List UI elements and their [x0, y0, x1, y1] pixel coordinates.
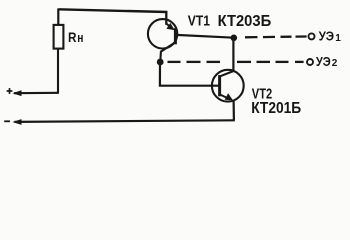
- svg-text:КТ203Б: КТ203Б: [218, 13, 272, 30]
- svg-text:VT1: VT1: [188, 12, 210, 29]
- svg-text:2: 2: [332, 58, 338, 69]
- wire Rн top lead: [57, 9, 59, 26]
- transistor VT1 circle: [148, 19, 177, 48]
- transistor VT2 base bar: [218, 75, 221, 96]
- wire VT2 emitter drop: [233, 101, 235, 121]
- dashed wire to УЭ2: [168, 61, 304, 63]
- dashed wire to УЭ1: [245, 35, 307, 38]
- wire node A down and right to VT2 base: [160, 62, 219, 86]
- wire top horizontal (Rн top to VT1 emitter corner): [58, 9, 167, 12]
- transistor VT2 collector line: [220, 71, 233, 76]
- transistor VT1 collector line: [160, 43, 174, 62]
- label + sign: [7, 88, 13, 94]
- label - sign: [4, 120, 10, 122]
- svg-text:УЭ: УЭ: [319, 29, 334, 43]
- svg-text:1: 1: [335, 33, 341, 44]
- svg-text:КТ201Б: КТ201Б: [251, 100, 301, 117]
- resistor Rн: [54, 25, 64, 49]
- terminal УЭ1 circle: [309, 33, 315, 39]
- wire bottom horizontal to minus terminal: [15, 120, 235, 122]
- svg-text:н: н: [77, 30, 83, 45]
- wire VT1 emitter drop: [165, 11, 167, 25]
- junction dot node B (VT1 base / VT2 collector): [231, 35, 238, 42]
- terminal - arrow: [13, 119, 22, 125]
- terminal + arrow: [13, 90, 22, 96]
- wire VT2 collector vertical: [232, 38, 234, 71]
- wire plus-terminal horizontal: [14, 92, 59, 95]
- transistor VT2 circle: [212, 70, 244, 102]
- svg-text:УЭ: УЭ: [316, 55, 331, 69]
- transistor VT2 emitter arrow (NPN, points outward): [220, 93, 233, 100]
- svg-text:R: R: [68, 29, 77, 45]
- transistor VT1 emitter arrow (PNP, points to base): [166, 23, 175, 30]
- terminal УЭ2 circle: [307, 59, 313, 65]
- transistor VT1 base bar: [174, 28, 177, 44]
- junction dot node A (VT1 collector / VT2 base): [157, 59, 164, 66]
- wire VT1 base to node dot: [176, 35, 234, 38]
- wire Rн bottom lead: [57, 49, 59, 93]
